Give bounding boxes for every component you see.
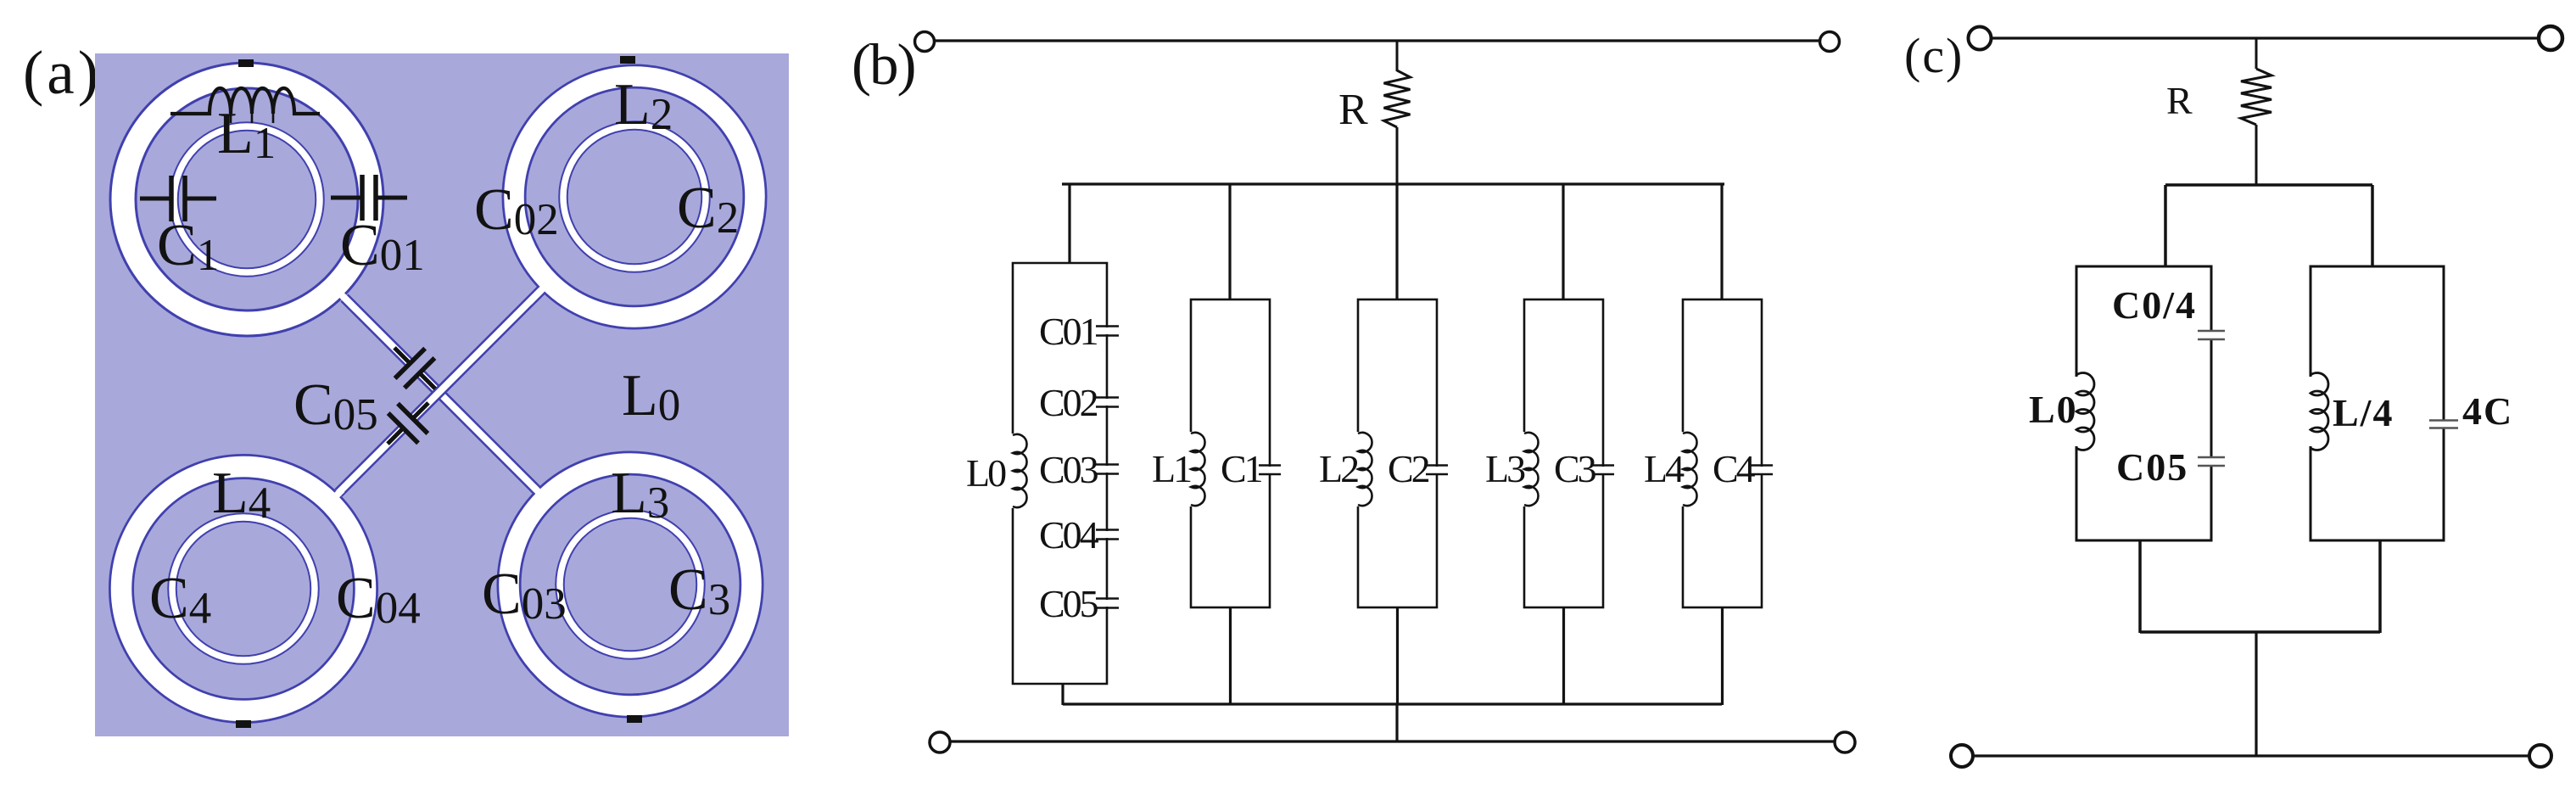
terminal top-right (c): [2539, 26, 2562, 50]
svg-text:(a): (a): [23, 38, 102, 107]
port tick ring1: [238, 59, 254, 67]
terminal bottom-left (b): [930, 732, 950, 752]
terminal bottom-right (c): [2529, 745, 2551, 767]
wire drop to L3C3 branch: [1562, 184, 1564, 299]
svg-text:C2: C2: [1388, 447, 1429, 490]
terminal top-right (b): [1820, 32, 1840, 52]
wire left loop to bottom bus (c): [2138, 540, 2142, 633]
wire drop to left loop (c): [2164, 185, 2167, 267]
wire drop to right loop (c): [2371, 185, 2374, 267]
inductor L0 symbol (b): [1007, 434, 1027, 508]
branch loop L3 || C3: [1524, 299, 1603, 607]
terminal bottom-left (c): [1951, 745, 1973, 767]
capacitor C03 symbol (b): [1096, 465, 1119, 474]
svg-text:C05: C05: [2116, 445, 2188, 489]
port tick ring2: [620, 56, 635, 64]
svg-text:(b): (b): [852, 32, 914, 97]
wire drop to L0 branch: [1068, 184, 1070, 263]
substrate (purple board): [95, 53, 789, 736]
capacitor C05 symbol (b): [1096, 599, 1119, 608]
wire junction ring2-diagonal: [529, 287, 545, 302]
svg-text:4C: 4C: [2462, 389, 2513, 433]
resistor R (c): [2241, 38, 2271, 185]
wire diagonal ring2-ring4: [338, 290, 541, 493]
wire bus tap to bottom (b): [1395, 704, 1398, 741]
wire split bus top (c): [2165, 183, 2372, 187]
capacitor C0/4 symbol (c): [2198, 331, 2225, 339]
branch loop L2 || C2: [1358, 299, 1437, 607]
wire right loop to bottom bus (c): [2378, 540, 2382, 633]
capacitor C4 symbol (b): [1751, 466, 1773, 475]
wire diagonal ring1-ring3: [344, 298, 537, 490]
wire branch L4 to bottom bus: [1721, 607, 1724, 705]
wire bottom (b): [951, 740, 1834, 742]
inductor L4 symbol (b): [1677, 432, 1697, 506]
wire bus tap to bottom (c): [2255, 632, 2257, 756]
L3 ring (bottom-right resonator): [509, 463, 752, 706]
wire branch L1 to bottom bus: [1229, 607, 1232, 705]
port tick ring3: [627, 715, 642, 723]
inductor L1 symbol (b): [1185, 432, 1205, 506]
L1 ring (top-left resonator): [123, 76, 371, 323]
inductor L2 symbol (b): [1352, 432, 1372, 506]
wire L0 branch to bottom bus: [1061, 684, 1064, 705]
wire bottom bus (c): [2140, 630, 2380, 634]
svg-text:C3: C3: [1554, 447, 1596, 490]
terminal top-left (c): [1969, 27, 1992, 50]
svg-text:C01: C01: [1039, 310, 1098, 353]
wire drop to L1C1 branch: [1228, 184, 1231, 299]
capacitor C1 symbol: [140, 176, 216, 221]
svg-text:L1: L1: [1152, 447, 1191, 490]
svg-text:C03: C03: [1039, 448, 1098, 491]
terminal bottom-right (b): [1835, 732, 1855, 752]
wire top (c): [1992, 36, 2539, 39]
svg-text:C0/4: C0/4: [2112, 283, 2197, 327]
svg-text:C1: C1: [1221, 447, 1262, 490]
wire bottom bus (b): [1063, 702, 1722, 705]
wire top (b): [935, 39, 1820, 42]
capacitor C2 symbol (b): [1426, 466, 1448, 475]
L2 ring (top-right resonator): [514, 76, 755, 317]
wire junction ring1-diagonal: [341, 294, 356, 310]
svg-text:C05: C05: [1039, 582, 1098, 625]
capacitor C02 symbol (b): [1096, 398, 1119, 407]
svg-text:R: R: [2166, 79, 2193, 122]
capacitor C05 (lower plate pair) symbol: [388, 403, 428, 444]
wire top bus (b): [1062, 182, 1724, 185]
svg-text:C4: C4: [1713, 447, 1756, 490]
branch loop L4 || C4: [1683, 299, 1762, 607]
capacitor C01 symbol: [331, 175, 407, 221]
svg-text:L0: L0: [966, 451, 1006, 495]
wire bottom (c): [1973, 754, 2529, 757]
inductor L3 symbol (b): [1518, 432, 1539, 506]
wire drop to L2C2 branch: [1395, 184, 1398, 299]
L4 ring (bottom-left resonator): [121, 467, 366, 711]
capacitor C1 symbol (b): [1259, 466, 1281, 475]
inductor L0 symbol (c): [2070, 373, 2094, 450]
svg-text:L4: L4: [1644, 447, 1685, 490]
branch loop L0 / C0_4 / C05 (c): [2076, 266, 2211, 540]
wire drop to L4C4 branch: [1720, 184, 1723, 299]
svg-text:C04: C04: [1039, 513, 1099, 557]
capacitor C05 symbol (c): [2198, 457, 2225, 466]
svg-text:L0: L0: [2029, 388, 2078, 431]
wire junction ring3-diagonal: [534, 487, 549, 502]
wire branch L2 to bottom bus: [1396, 607, 1399, 705]
inductor L1 symbol: [170, 88, 320, 123]
wire branch L3 to bottom bus: [1562, 607, 1565, 705]
svg-text:L/4: L/4: [2333, 391, 2394, 434]
capacitor C04 symbol (b): [1096, 530, 1119, 540]
resistor R (b): [1384, 41, 1411, 194]
capacitor C05 (upper plate pair) symbol: [394, 348, 435, 389]
capacitor C01 symbol (b): [1096, 327, 1119, 336]
branch loop L0 with C01-C05: [1013, 263, 1107, 684]
capacitor 4C symbol (c): [2429, 420, 2458, 428]
svg-text:(c): (c): [1904, 28, 1964, 83]
svg-text:R: R: [1338, 86, 1368, 134]
svg-text:L2: L2: [1319, 447, 1358, 490]
inductor L/4 symbol (c): [2304, 373, 2328, 450]
svg-text:L3: L3: [1485, 447, 1525, 490]
svg-text:C02: C02: [1039, 381, 1098, 424]
capacitor C3 symbol (b): [1592, 466, 1614, 475]
branch loop L/4 || 4C (c): [2311, 266, 2444, 540]
terminal top-left (b): [915, 32, 935, 52]
port tick ring4: [236, 720, 251, 728]
branch loop L1 || C1: [1191, 299, 1270, 607]
wire junction ring4-diagonal: [327, 490, 342, 505]
